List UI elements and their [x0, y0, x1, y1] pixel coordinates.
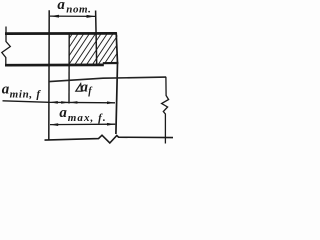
- svg-text:a: a: [2, 82, 10, 98]
- svg-text:min, f: min, f: [10, 88, 42, 100]
- svg-text:nom.: nom.: [66, 4, 91, 16]
- svg-text:a: a: [59, 105, 67, 121]
- svg-text:f: f: [88, 86, 93, 97]
- svg-text:a: a: [57, 0, 65, 13]
- svg-text:max, f.: max, f.: [68, 112, 107, 124]
